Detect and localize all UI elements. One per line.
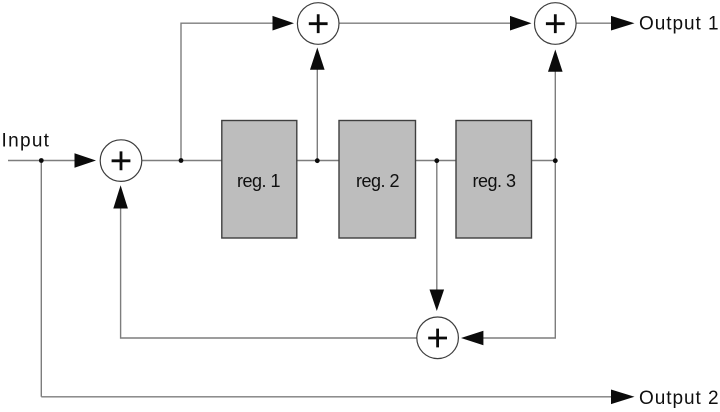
- wire: node D down to adder A4: [436, 161, 438, 291]
- register reg. 2: [339, 121, 416, 239]
- svg-text:Output 2: Output 2: [639, 388, 719, 409]
- arrowhead: up into adder A3 bottom: [548, 50, 563, 72]
- adder A3 (top right): [535, 3, 577, 45]
- wire: output2 vertical drop from input node: [40, 161, 42, 397]
- node D (between reg2 and reg3): [434, 158, 439, 163]
- wire: adder A4 feedback left and up to adder A1: [121, 209, 417, 339]
- svg-text:reg. 1: reg. 1: [237, 171, 281, 191]
- svg-text:Input: Input: [2, 131, 51, 152]
- wire: input line: [8, 160, 75, 162]
- arrowhead: up into adder A2 bottom: [310, 48, 325, 70]
- wire: adder A1 to reg1: [142, 160, 222, 162]
- wire: reg3 to node E: [532, 160, 556, 162]
- arrowhead: into adder A2 left: [273, 16, 295, 31]
- svg-text:Output 1: Output 1: [639, 13, 719, 34]
- svg-text:reg. 2: reg. 2: [356, 171, 400, 191]
- adder A1 (input adder): [100, 140, 142, 182]
- svg-text:reg. 3: reg. 3: [472, 171, 516, 191]
- arrowhead: into adder A3 left: [510, 16, 532, 31]
- register reg. 1: [222, 121, 297, 239]
- wire: output2 horizontal: [41, 396, 611, 398]
- wire: node E up to adder A3: [554, 72, 556, 161]
- wire: node B up and over to adder A2: [181, 23, 273, 160]
- arrowhead: output 2: [611, 390, 635, 405]
- adder A2 (top middle): [297, 3, 339, 45]
- arrowhead: into adder A1: [75, 153, 97, 168]
- node E (right of reg3): [553, 158, 558, 163]
- node C (between reg1 and reg2): [315, 158, 320, 163]
- wire: reg1 to reg2: [297, 160, 340, 162]
- arrowhead: output 1: [611, 16, 635, 31]
- node A (input junction): [39, 158, 44, 163]
- wire: node C up to adder A2: [316, 70, 318, 161]
- wire: node E down and left to adder A4: [483, 161, 555, 339]
- wire: adder A3 to output1 arrow: [576, 22, 611, 24]
- arrowhead: down into adder A4 top: [430, 290, 445, 312]
- register reg. 3: [456, 121, 532, 239]
- wire: adder A2 to adder A3: [339, 22, 511, 24]
- adder A4 (bottom): [417, 317, 459, 359]
- wire: reg2 to reg3: [416, 160, 457, 162]
- arrowhead: left into adder A4 right: [461, 331, 483, 346]
- arrowhead: feedback up into adder A1: [113, 185, 128, 208]
- node B: [179, 158, 184, 163]
